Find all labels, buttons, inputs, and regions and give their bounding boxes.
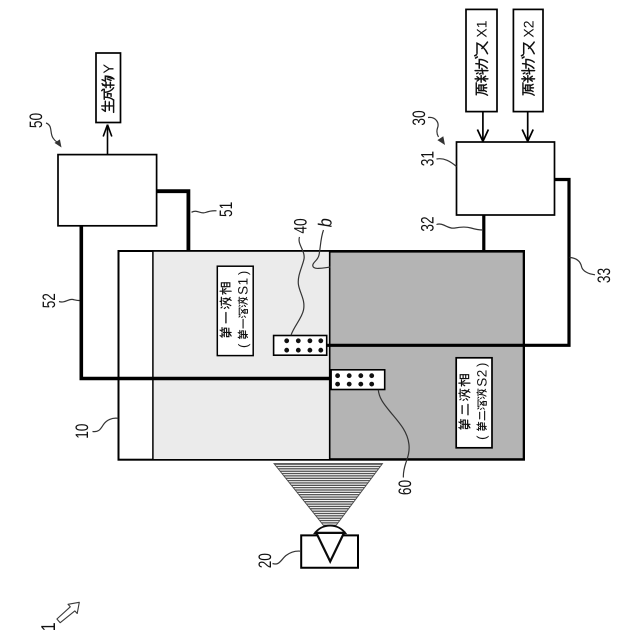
leader 40 xyxy=(291,237,304,335)
pipe 51 xyxy=(157,191,189,251)
leader 51 xyxy=(192,211,217,213)
text 生成物Y xyxy=(101,64,117,113)
distributor block 40 xyxy=(274,336,327,356)
box label 原料ガスX1 xyxy=(466,9,497,111)
svg-text:32: 32 xyxy=(418,216,438,231)
svg-text:(: ( xyxy=(474,435,489,440)
svg-text:b: b xyxy=(316,218,337,227)
svg-text:X2: X2 xyxy=(520,20,536,37)
label box S1 xyxy=(217,266,253,355)
svg-text:1: 1 xyxy=(38,622,60,631)
text 原料ガスX2 xyxy=(520,20,536,95)
transducer box 20 xyxy=(301,535,358,567)
leader 10 xyxy=(93,418,119,431)
first liquid phase region S1 (light gray) xyxy=(153,252,330,459)
svg-text:30: 30 xyxy=(409,110,429,125)
svg-text:20: 20 xyxy=(255,553,275,568)
box label 生成物Y xyxy=(96,53,121,123)
svg-text:S: S xyxy=(236,286,251,295)
svg-text:): ) xyxy=(474,363,489,367)
text 第一液相 (第一溶液S1) xyxy=(220,271,251,348)
arrow gas X1 into box 31 xyxy=(477,112,488,142)
pipe 32 xyxy=(482,215,485,251)
text 原料ガスX1 xyxy=(474,20,490,95)
leader 52 xyxy=(59,299,80,302)
tank inner wall line xyxy=(152,251,154,460)
svg-text:10: 10 xyxy=(72,424,92,439)
figure pointer arrow xyxy=(57,602,79,622)
svg-text:X1: X1 xyxy=(474,20,490,37)
leader b xyxy=(313,230,331,268)
arrow gas X2 into box 31 xyxy=(522,112,533,142)
leader 30 with arrow xyxy=(428,117,439,137)
leader 60 xyxy=(378,390,409,478)
leader 32 xyxy=(437,224,484,230)
svg-text:60: 60 xyxy=(395,480,415,495)
svg-text:2: 2 xyxy=(474,370,489,378)
arrow to product Y xyxy=(103,125,112,155)
svg-text:Y: Y xyxy=(101,64,117,74)
svg-text:): ) xyxy=(235,271,250,275)
transducer lens dome xyxy=(315,526,345,534)
pipe 33 xyxy=(327,180,570,346)
distributor block 60 xyxy=(331,370,385,390)
leader 33 xyxy=(570,258,596,275)
box label 原料ガスX2 xyxy=(513,9,543,111)
svg-text:40: 40 xyxy=(291,218,311,233)
box 50 reactor xyxy=(58,155,157,226)
ultrasonic beam cone (hatched) xyxy=(274,464,383,534)
svg-text:33: 33 xyxy=(594,268,614,283)
svg-text:(: ( xyxy=(235,343,250,348)
leader 20 xyxy=(273,551,302,564)
svg-text:51: 51 xyxy=(216,202,236,217)
leader 50 with arrow xyxy=(46,123,58,143)
svg-text:1: 1 xyxy=(236,278,251,286)
second liquid phase region S2 (dark gray) xyxy=(330,252,524,459)
leader 31 xyxy=(437,159,457,167)
text 第二液相 (第二溶液S2) xyxy=(459,363,490,440)
svg-text:31: 31 xyxy=(418,151,438,166)
box 31 gas feeder xyxy=(457,142,555,215)
label box S2 xyxy=(456,358,492,448)
pipe 52 xyxy=(81,226,331,379)
svg-text:S: S xyxy=(474,378,489,387)
vessel 10 outer tank xyxy=(119,251,525,460)
svg-text:50: 50 xyxy=(26,113,46,128)
svg-text:52: 52 xyxy=(39,293,59,308)
transducer horn white triangle xyxy=(316,533,344,562)
